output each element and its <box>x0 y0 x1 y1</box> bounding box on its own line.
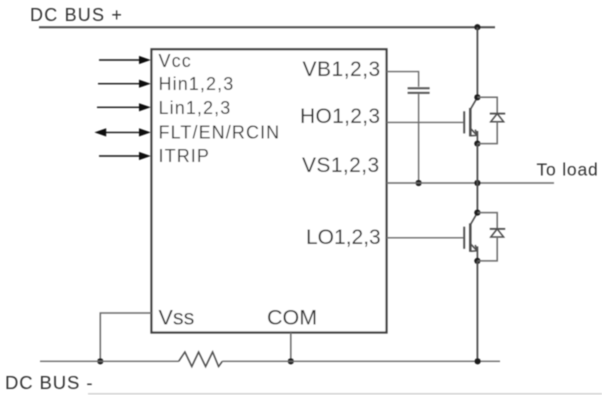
wire: phase leg vertical (rail to Q1 collector) <box>476 27 478 97</box>
wire: HO1,2,3 to Q1 gate <box>387 121 464 123</box>
wire: VS1,2,3 line to load <box>387 182 555 184</box>
wire: phase leg vertical (Q1 emitter to Q2 collector) <box>476 144 478 213</box>
capacitor C1 (bootstrap) <box>408 88 430 93</box>
svg-text:COM: COM <box>267 306 317 330</box>
svg-text:Vcc: Vcc <box>159 51 192 71</box>
svg-text:LO1,2,3: LO1,2,3 <box>306 226 381 249</box>
wire: VB1,2,3 to bootstrap capacitor <box>387 72 419 87</box>
diode D1 (anti-parallel, high side) <box>477 97 505 143</box>
svg-text:ITRIP: ITRIP <box>159 146 211 166</box>
node: Vss / DC BUS - junction <box>97 358 103 364</box>
wire: COM to DC BUS - <box>290 333 292 362</box>
node: COM / DC BUS - junction <box>288 358 294 364</box>
wire: LO1,2,3 to Q2 gate <box>387 237 464 239</box>
wire: DC BUS - rail (left of resistor) <box>40 360 179 362</box>
transistor Q1 (high-side IGBT) <box>464 97 477 143</box>
svg-text:DC BUS +: DC BUS + <box>30 5 123 25</box>
node: phase leg / DC BUS - junction <box>475 358 481 364</box>
svg-text:Hin1,2,3: Hin1,2,3 <box>159 74 235 94</box>
wire: Vss to DC BUS - <box>100 313 151 361</box>
node: C1 / VS junction <box>416 180 422 186</box>
node: VS / phase leg junction <box>474 180 480 186</box>
svg-text:To load: To load <box>537 159 599 179</box>
input arrow: FLT/EN/RCIN (bidirectional) <box>94 128 150 136</box>
wire: DC BUS + top rail <box>39 26 495 28</box>
input arrow: Lin1,2,3 <box>97 103 151 111</box>
node: Q2 collector / D2 cathode <box>474 210 480 216</box>
input arrow: Hin1,2,3 <box>98 80 151 88</box>
svg-text:FLT/EN/RCIN: FLT/EN/RCIN <box>159 122 281 142</box>
svg-text:VB1,2,3: VB1,2,3 <box>303 58 381 81</box>
svg-text:VS1,2,3: VS1,2,3 <box>302 154 380 177</box>
node: top rail / high-side collector junction <box>474 24 480 30</box>
diode D2 (anti-parallel, low side) <box>477 213 505 261</box>
wire: DC BUS - rail (right of resistor) <box>222 360 500 362</box>
input arrow: Vcc <box>99 56 151 64</box>
input arrow: ITRIP <box>99 152 151 160</box>
node: Q1 emitter / D1 anode <box>474 141 480 147</box>
gate driver IC U1 <box>152 49 387 332</box>
transistor Q2 (low-side IGBT) <box>464 213 477 261</box>
resistor R1 (shunt) <box>179 352 223 367</box>
node: Q2 emitter / D2 anode <box>474 258 480 264</box>
svg-text:DC BUS -: DC BUS - <box>5 372 93 393</box>
node: Q1 collector / D1 cathode <box>474 94 480 100</box>
svg-text:Vss: Vss <box>159 306 195 330</box>
svg-text:HO1,2,3: HO1,2,3 <box>300 105 380 128</box>
wire: capacitor C1 to VS node <box>418 94 420 183</box>
wire: phase leg vertical (Q2 emitter to DC BUS -) <box>476 261 478 361</box>
svg-text:Lin1,2,3: Lin1,2,3 <box>159 98 232 118</box>
